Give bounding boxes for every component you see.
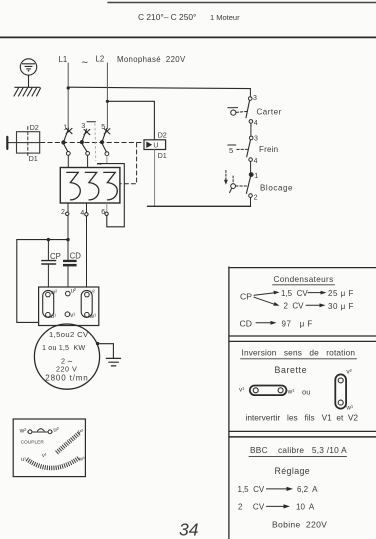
wire bypass around overload (96, 163, 124, 227)
terminal U1 (46, 312, 51, 317)
inversion panel top border (229, 340, 376, 342)
motor circle (34, 324, 99, 389)
svg-text:4: 4 (80, 210, 84, 217)
svg-text:CP: CP (50, 252, 61, 261)
svg-text:Frein: Frein (259, 145, 278, 154)
wire capacitor bus (17, 239, 68, 241)
svg-text:6: 6 (101, 209, 105, 216)
svg-text:v²: v² (90, 290, 95, 296)
svg-text:COUPLER: COUPLER (21, 439, 45, 445)
detail barrette symbol (28, 429, 53, 434)
svg-text:Carter: Carter (257, 108, 282, 117)
svg-text:v²: v² (78, 429, 83, 435)
svg-text:Réglage: Réglage (275, 466, 311, 476)
node junction L1 (67, 86, 70, 89)
wire to motor U1 (17, 240, 39, 323)
svg-text:w²: w² (50, 290, 57, 296)
node motor earth (96, 342, 99, 345)
capacitor CD (63, 240, 81, 287)
svg-text:D1: D1 (29, 154, 38, 163)
svg-text:L1: L1 (59, 55, 68, 64)
arrow to 30uF (306, 304, 322, 306)
terminal 6 below overload (101, 203, 108, 216)
wire motor to earth (98, 344, 114, 359)
svg-text:∼: ∼ (81, 57, 89, 67)
svg-text:ou: ou (302, 388, 310, 397)
contact Frein (247, 123, 279, 165)
svg-text:34: 34 (179, 520, 199, 539)
overload element 3 (104, 172, 118, 200)
switch pole 2 (80, 122, 96, 168)
terminal V2 (85, 292, 90, 297)
inversion panel bottom border (229, 430, 376, 432)
svg-text:Blocage: Blocage (260, 184, 293, 193)
switch pole 3 (100, 124, 110, 164)
svg-text:w¹: w¹ (78, 456, 85, 462)
wire D1 down (154, 150, 156, 207)
wire bottom return (148, 205, 251, 207)
svg-text:Bobine 220V: Bobine 220V (272, 519, 327, 529)
svg-text:Inversion sens de rotati: Inversion sens de rotation (242, 348, 356, 358)
arrow to 25uF (308, 292, 323, 294)
ground hatch top-left (14, 87, 41, 96)
overload element 1 (67, 172, 81, 200)
terminal U2 (66, 291, 71, 296)
svg-text:Monophasé 220V: Monophasé 220V (117, 55, 186, 64)
contact Blocage (246, 161, 293, 206)
svg-text:Barette: Barette (275, 365, 308, 375)
motor terminal box (39, 287, 99, 326)
capacitor CP (42, 240, 61, 287)
vertical barrette (335, 374, 346, 408)
detail hatched strap V (57, 433, 80, 453)
svg-text:w¹: w¹ (345, 404, 353, 411)
terminal W2 (46, 292, 51, 297)
svg-text:4: 4 (254, 120, 258, 127)
svg-text:v¹: v¹ (42, 453, 47, 459)
svg-text:L2: L2 (96, 55, 105, 64)
svg-text:w¹: w¹ (89, 314, 96, 320)
actuator for Carter (228, 108, 248, 116)
svg-text:D2: D2 (158, 131, 167, 140)
svg-text:CP: CP (240, 291, 252, 301)
svg-text:2800 t/mn: 2800 t/mn (45, 374, 88, 383)
svg-text:1,5ou2 CV: 1,5ou2 CV (49, 330, 89, 339)
detail hatched strap arc (27, 458, 80, 468)
svg-text:C 210°– C 250°: C 210°– C 250° (138, 12, 196, 22)
terminal V1 (65, 312, 70, 317)
wire L1 horizontal to right chain (68, 87, 250, 88)
wire L1 vertical (67, 63, 69, 128)
contact Carter (246, 89, 282, 127)
condensateurs panel top border (229, 267, 376, 269)
motor rating text (42, 330, 89, 383)
svg-text:U: U (153, 143, 158, 150)
svg-text:D2: D2 (30, 123, 39, 132)
mechanical linkage dashed line (41, 142, 144, 144)
antenna earth symbol top-left (20, 59, 36, 87)
overload element 2 (85, 172, 99, 200)
title C210-C250 1 Moteur (108, 3, 376, 23)
svg-text:2: 2 (61, 209, 65, 216)
svg-text:CD: CD (70, 251, 82, 260)
coil D center dashed axis (27, 127, 29, 156)
terminal 2 below overload (61, 203, 69, 239)
CP fork arrows (254, 291, 280, 306)
node CD junction (66, 238, 69, 241)
svg-text:v¹: v¹ (239, 387, 244, 394)
svg-text:10 A: 10 A (296, 503, 315, 512)
svg-text:u²: u² (71, 289, 76, 295)
undervoltage release U1 box (144, 140, 166, 150)
svg-text:w²: w² (19, 427, 27, 434)
earth symbol right of motor (106, 358, 120, 366)
svg-text:3: 3 (81, 123, 85, 130)
svg-text:Condensateurs: Condensateurs (274, 275, 334, 284)
linkage branch to overload (121, 143, 137, 184)
coupling detail box (13, 419, 85, 477)
horizontal barrette (250, 386, 287, 396)
wire L2 vertical (106, 63, 108, 129)
svg-text:97 μ F: 97 μ F (282, 319, 313, 328)
svg-text:v¹: v¹ (70, 313, 75, 319)
svg-text:1,5 CV: 1,5 CV (238, 485, 265, 494)
condensateurs panel bottom border (229, 335, 376, 337)
svg-text:30 μ F: 30 μ F (328, 302, 354, 311)
svg-text:w¹: w¹ (287, 389, 295, 396)
switch pole 1 (61, 125, 72, 168)
overload relay box (60, 168, 120, 204)
svg-text:2: 2 (254, 194, 258, 201)
svg-text:u¹: u¹ (21, 457, 26, 463)
arrow CD (256, 322, 273, 324)
BBC panel top border (229, 436, 376, 438)
link bar W2-U1 (43, 290, 54, 317)
svg-text:u²: u² (53, 427, 58, 433)
svg-text:3: 3 (253, 95, 257, 102)
svg-text:u¹: u¹ (51, 314, 56, 320)
actuator for Frein (228, 145, 248, 155)
svg-text:2 CV: 2 CV (284, 302, 305, 311)
svg-text:D1: D1 (158, 151, 167, 160)
svg-text:CD: CD (240, 318, 252, 328)
svg-text:intervertir les fils V1: intervertir les fils V1 et V2 (246, 413, 359, 423)
svg-text:2 CV: 2 CV (238, 503, 265, 512)
svg-text:BBC calibre 5,3 /10 A: BBC calibre 5,3 /10 A (250, 445, 347, 455)
svg-text:220 V: 220 V (56, 364, 77, 373)
svg-text:25 μ F: 25 μ F (328, 289, 354, 298)
svg-text:1,5 CV: 1,5 CV (281, 289, 308, 298)
note lead from tie bar to bypass wire (94, 124, 97, 161)
link bar V2-W1 (81, 290, 92, 317)
svg-text:6,2 A: 6,2 A (297, 485, 318, 494)
svg-text:3: 3 (254, 136, 258, 143)
svg-text:5: 5 (229, 146, 233, 155)
coil D left terminal bar (6, 137, 8, 149)
svg-text:1 Moteur: 1 Moteur (210, 13, 240, 22)
node junction L2 (106, 100, 109, 103)
panels left border (228, 267, 230, 539)
coil D box (17, 132, 40, 153)
header rule (0, 36, 376, 38)
svg-text:4: 4 (254, 158, 258, 165)
svg-text:1: 1 (254, 173, 258, 180)
terminal W1 (85, 312, 90, 317)
wire L2 to D2 coil (107, 101, 154, 139)
terminal 4 below overload (80, 203, 88, 287)
actuator for Blocage (224, 171, 248, 193)
svg-text:v²: v² (346, 369, 351, 376)
svg-text:1 ou 1,5 KW: 1 ou 1,5 KW (42, 343, 85, 352)
node CP junction (47, 238, 50, 241)
wire into coil D (7, 142, 39, 144)
